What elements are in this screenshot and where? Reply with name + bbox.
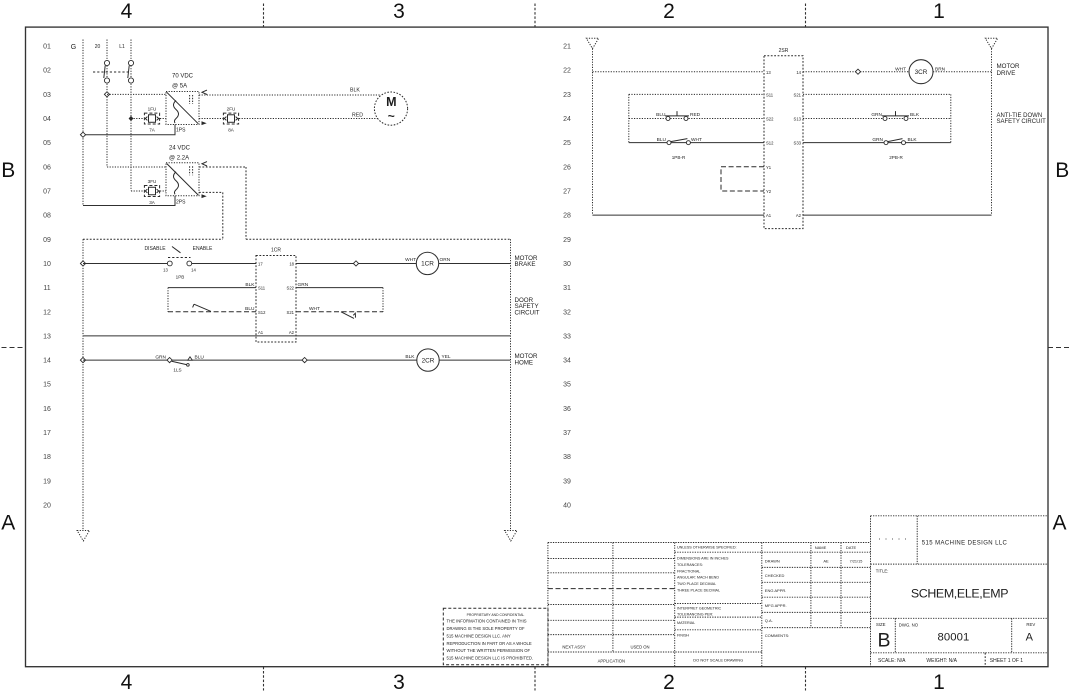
- svg-text:S21: S21: [794, 92, 802, 97]
- svg-text:20: 20: [43, 503, 51, 510]
- svg-text:FRACTIONAL: FRACTIONAL: [677, 569, 700, 573]
- svg-text:WITHOUT THE WRITTEN PERMISSION: WITHOUT THE WRITTEN PERMISSION OF: [447, 648, 531, 653]
- svg-text:1CR: 1CR: [421, 261, 434, 268]
- svg-text:HOME: HOME: [515, 360, 534, 367]
- svg-text:WHT: WHT: [691, 137, 702, 143]
- svg-text:GRN: GRN: [298, 282, 309, 288]
- svg-text:2PS: 2PS: [176, 200, 186, 206]
- svg-text:1PS: 1PS: [176, 128, 186, 134]
- svg-text:THREE PLACE DECIMAL: THREE PLACE DECIMAL: [677, 589, 720, 593]
- svg-text:2SR: 2SR: [779, 48, 789, 54]
- svg-text:27: 27: [563, 188, 571, 195]
- svg-text:3: 3: [393, 0, 405, 23]
- svg-text:04: 04: [43, 116, 51, 123]
- svg-text:BLU: BLU: [245, 306, 255, 312]
- svg-text:1LS: 1LS: [173, 368, 181, 373]
- svg-text:INTERPRET GEOMETRIC: INTERPRET GEOMETRIC: [677, 607, 722, 611]
- svg-text:31: 31: [563, 285, 571, 292]
- svg-text:TOLERANCING PER:: TOLERANCING PER:: [677, 613, 713, 617]
- svg-text:DRIVE: DRIVE: [997, 70, 1016, 77]
- svg-text:USED ON: USED ON: [630, 645, 649, 650]
- svg-text:REPRODUCTION IN PART OR AS A W: REPRODUCTION IN PART OR AS A WHOLE: [447, 641, 532, 646]
- svg-text:PROPRIETARY AND CONFIDENTIAL: PROPRIETARY AND CONFIDENTIAL: [467, 613, 525, 617]
- svg-text:20: 20: [95, 44, 101, 50]
- svg-text:22: 22: [563, 68, 571, 75]
- svg-text:DATE: DATE: [846, 545, 857, 550]
- svg-text:BLU: BLU: [195, 355, 205, 361]
- svg-text:18: 18: [43, 454, 51, 461]
- svg-text:2PB-R: 2PB-R: [889, 155, 903, 160]
- svg-text:40: 40: [563, 503, 571, 510]
- svg-text:MATERIAL: MATERIAL: [677, 621, 695, 625]
- svg-text:70 VDC: 70 VDC: [172, 74, 194, 80]
- svg-text:NAME: NAME: [815, 545, 827, 550]
- svg-text:515 MACHINE DESIGN LLC: 515 MACHINE DESIGN LLC: [922, 540, 1008, 546]
- svg-text:18: 18: [289, 262, 294, 267]
- svg-text:1FU: 1FU: [148, 107, 157, 112]
- svg-text:YEL: YEL: [442, 354, 451, 360]
- svg-text:2: 2: [663, 671, 675, 694]
- svg-text:CIRCUIT: CIRCUIT: [515, 309, 540, 316]
- svg-text:17: 17: [258, 262, 263, 267]
- svg-text:TWO PLACE DECIMAL: TWO PLACE DECIMAL: [677, 582, 716, 586]
- svg-text:33: 33: [563, 333, 571, 340]
- svg-text:7/21/15: 7/21/15: [850, 559, 863, 563]
- svg-text:DWG. NO: DWG. NO: [899, 622, 919, 627]
- svg-text:A2: A2: [289, 330, 295, 335]
- svg-text:12: 12: [43, 309, 51, 316]
- svg-text:GRN: GRN: [155, 355, 166, 361]
- svg-text:S11: S11: [258, 286, 266, 291]
- svg-text:1CR: 1CR: [271, 248, 281, 254]
- svg-text:14: 14: [796, 70, 801, 75]
- svg-text:A1: A1: [258, 330, 264, 335]
- svg-text:29: 29: [563, 237, 571, 244]
- svg-text:07: 07: [43, 188, 51, 195]
- svg-text:B: B: [1055, 159, 1069, 182]
- svg-text:10: 10: [43, 261, 51, 268]
- svg-text:BLK: BLK: [910, 112, 920, 118]
- svg-text:4: 4: [121, 0, 133, 23]
- svg-text:APPLICATION: APPLICATION: [598, 659, 625, 664]
- svg-text:BLU: BLU: [657, 137, 667, 143]
- svg-text:L1: L1: [119, 44, 125, 50]
- svg-text:80001: 80001: [938, 631, 970, 643]
- svg-text:1: 1: [933, 671, 945, 694]
- svg-text:@ 2.2A: @ 2.2A: [169, 156, 189, 162]
- svg-text:3: 3: [393, 671, 405, 694]
- svg-text:THE INFORMATION CONTAINED IN T: THE INFORMATION CONTAINED IN THIS: [447, 619, 527, 624]
- svg-text:19: 19: [43, 478, 51, 485]
- svg-text:BLK: BLK: [245, 282, 255, 288]
- svg-text:13: 13: [163, 268, 168, 273]
- svg-text:3A: 3A: [149, 200, 156, 205]
- svg-text:2FU: 2FU: [227, 107, 236, 112]
- svg-text:06: 06: [43, 164, 51, 171]
- svg-text:8A: 8A: [228, 128, 235, 133]
- svg-text:DO NOT SCALE DRAWING: DO NOT SCALE DRAWING: [693, 658, 743, 663]
- svg-text:MFG APPR.: MFG APPR.: [765, 603, 787, 608]
- svg-text:WHT: WHT: [405, 257, 416, 263]
- svg-text:38: 38: [563, 454, 571, 461]
- svg-text:DRAWING IS THE SOLE PROPERTY O: DRAWING IS THE SOLE PROPERTY OF: [447, 626, 525, 631]
- svg-text:SHEET 1 OF 1: SHEET 1 OF 1: [990, 658, 1023, 664]
- svg-text:TITLE:: TITLE:: [876, 569, 889, 574]
- svg-text:GRN: GRN: [871, 112, 882, 118]
- svg-text:1PB-R: 1PB-R: [672, 155, 686, 160]
- svg-text:SAFETY CIRCUIT: SAFETY CIRCUIT: [997, 119, 1047, 125]
- svg-text:S33: S33: [794, 141, 802, 146]
- svg-text:17: 17: [43, 430, 51, 437]
- svg-text:RED: RED: [352, 113, 363, 119]
- svg-text:A: A: [1052, 511, 1066, 534]
- svg-text:RED: RED: [690, 112, 701, 118]
- svg-text:COMMENTS:: COMMENTS:: [765, 633, 789, 638]
- svg-text:G: G: [71, 44, 76, 51]
- svg-text:SCHEM,ELE,EMP: SCHEM,ELE,EMP: [911, 586, 1008, 600]
- svg-text:24 VDC: 24 VDC: [169, 146, 191, 152]
- svg-text:515 MACHINE DESIGN LLC. ANY: 515 MACHINE DESIGN LLC. ANY: [447, 633, 511, 638]
- svg-text:11: 11: [43, 285, 50, 292]
- svg-text:13: 13: [766, 70, 771, 75]
- svg-text:28: 28: [563, 213, 571, 220]
- svg-text:05: 05: [43, 140, 51, 147]
- svg-text:16: 16: [43, 406, 51, 413]
- svg-text:37: 37: [563, 430, 571, 437]
- svg-text:3FU: 3FU: [148, 179, 157, 184]
- svg-text:GRN: GRN: [872, 137, 883, 143]
- svg-text:03: 03: [43, 92, 51, 99]
- svg-text:09: 09: [43, 237, 51, 244]
- svg-text:25: 25: [563, 140, 571, 147]
- svg-text:BLU: BLU: [656, 112, 666, 118]
- svg-text:2: 2: [663, 0, 675, 23]
- svg-text:WHT: WHT: [309, 306, 320, 312]
- svg-text:1PB: 1PB: [176, 275, 185, 280]
- svg-text:DIMENSIONS ARE IN INCHES: DIMENSIONS ARE IN INCHES: [677, 557, 729, 561]
- svg-text:3CR: 3CR: [915, 69, 928, 76]
- svg-text:4: 4: [121, 671, 133, 694]
- svg-text:15: 15: [43, 382, 51, 389]
- svg-text:SCALE: N/A: SCALE: N/A: [878, 658, 906, 664]
- svg-text:30: 30: [563, 261, 571, 268]
- svg-text:ENABLE: ENABLE: [193, 246, 213, 252]
- svg-text:01: 01: [43, 44, 51, 51]
- svg-text:AE: AE: [823, 558, 829, 563]
- svg-text:14: 14: [191, 268, 196, 273]
- svg-text:BRAKE: BRAKE: [515, 261, 536, 268]
- svg-text:S13: S13: [794, 117, 802, 122]
- svg-text:NEXT ASSY: NEXT ASSY: [562, 645, 585, 650]
- svg-text:23: 23: [563, 92, 571, 99]
- svg-text:32: 32: [563, 309, 571, 316]
- svg-text:M: M: [386, 95, 396, 109]
- svg-text:CHECKED: CHECKED: [765, 573, 785, 578]
- svg-text:A1: A1: [766, 213, 772, 218]
- svg-text:S22: S22: [287, 286, 295, 291]
- svg-text:~: ~: [388, 109, 395, 123]
- svg-text:DISABLE: DISABLE: [144, 246, 166, 252]
- svg-text:21: 21: [563, 44, 571, 51]
- svg-text:Y2: Y2: [766, 189, 772, 194]
- svg-text:S21: S21: [287, 310, 295, 315]
- svg-text:BLK: BLK: [405, 354, 415, 360]
- svg-text:S22: S22: [766, 117, 774, 122]
- svg-text:WEIGHT: N/A: WEIGHT: N/A: [926, 658, 957, 664]
- svg-text:A: A: [1, 511, 15, 534]
- svg-text:FINISH: FINISH: [677, 634, 689, 638]
- svg-text:A: A: [1026, 631, 1034, 643]
- svg-text:B: B: [878, 629, 891, 651]
- svg-text:2CR: 2CR: [422, 357, 435, 364]
- svg-text:TOLERANCES:: TOLERANCES:: [677, 563, 703, 567]
- svg-text:ENG APPR.: ENG APPR.: [765, 588, 787, 593]
- svg-text:ORN: ORN: [440, 257, 451, 263]
- svg-text:Y1: Y1: [766, 165, 772, 170]
- svg-text:39: 39: [563, 478, 571, 485]
- svg-text:Q.A.: Q.A.: [765, 618, 773, 623]
- svg-text:BLK: BLK: [350, 88, 360, 94]
- svg-text:@ 5A: @ 5A: [172, 84, 187, 90]
- svg-text:S12: S12: [766, 141, 774, 146]
- svg-text:ANGULAR: MACH BEND: ANGULAR: MACH BEND: [677, 576, 719, 580]
- svg-text:35: 35: [563, 382, 571, 389]
- svg-text:26: 26: [563, 164, 571, 171]
- svg-text:BLK: BLK: [908, 137, 918, 143]
- svg-text:34: 34: [563, 358, 571, 365]
- svg-text:13: 13: [43, 333, 51, 340]
- svg-text:515 MACHINE DESIGN LLC IS PROH: 515 MACHINE DESIGN LLC IS PROHIBITED.: [447, 656, 534, 661]
- svg-text:S12: S12: [258, 310, 266, 315]
- svg-text:24: 24: [563, 116, 571, 123]
- svg-text:DRAWN: DRAWN: [765, 558, 780, 563]
- svg-text:B: B: [1, 159, 15, 182]
- svg-text:S11: S11: [766, 92, 774, 97]
- svg-text:08: 08: [43, 213, 51, 220]
- svg-text:A2: A2: [796, 213, 802, 218]
- svg-text:14: 14: [43, 358, 51, 365]
- svg-text:BRN: BRN: [935, 67, 946, 73]
- svg-text:SIZE: SIZE: [876, 622, 886, 627]
- svg-text:1: 1: [933, 0, 945, 23]
- svg-text:UNLESS OTHERWISE SPECIFIED:: UNLESS OTHERWISE SPECIFIED:: [677, 546, 737, 550]
- svg-text:36: 36: [563, 406, 571, 413]
- svg-text:7A: 7A: [149, 128, 156, 133]
- svg-text:WHT: WHT: [895, 67, 906, 73]
- svg-text:02: 02: [43, 68, 51, 75]
- svg-text:REV: REV: [1026, 622, 1035, 627]
